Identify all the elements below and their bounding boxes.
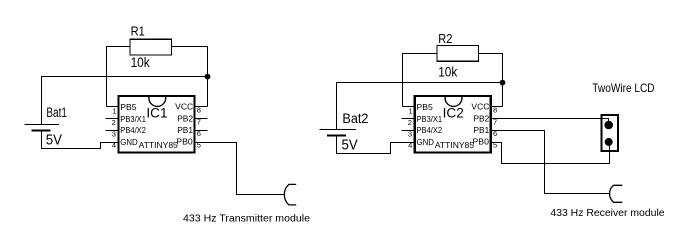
svg-text:5V: 5V (46, 131, 62, 148)
IC2 pin8 stub VCC (491, 106, 502, 108)
svg-text:IC2: IC2 (443, 106, 464, 121)
svg-text:PB5: PB5 (417, 102, 434, 112)
svg-text:IC1: IC1 (146, 106, 167, 121)
TwoWire LCD connector body (602, 115, 618, 151)
svg-text:GND: GND (417, 137, 434, 147)
svg-text:1: 1 (112, 106, 116, 115)
svg-text:1: 1 (408, 106, 412, 115)
svg-text:8: 8 (197, 106, 201, 115)
svg-text:8: 8 (493, 106, 497, 115)
IC2 notch (445, 96, 462, 106)
IC1 pin1 stub (107, 106, 119, 108)
svg-text:3: 3 (408, 130, 412, 139)
wire battery2 plus rail (337, 83, 503, 130)
svg-text:7: 7 (493, 117, 497, 126)
wire battery plus rail (42, 77, 208, 125)
IC1 pin2 stub (105, 118, 118, 120)
svg-text:PB0: PB0 (473, 136, 490, 146)
svg-text:5V: 5V (342, 137, 358, 154)
svg-text:10k: 10k (438, 63, 458, 79)
svg-text:6: 6 (197, 129, 201, 138)
TwoWire LCD pin circle bottom (605, 138, 613, 146)
resistor R2 body (437, 46, 479, 62)
svg-text:PB4/X2: PB4/X2 (417, 125, 443, 135)
svg-text:VCC: VCC (471, 102, 489, 112)
svg-text:2: 2 (408, 118, 412, 127)
wire PB0 to transmitter antenna (195, 143, 285, 195)
transmitter antenna symbol (284, 184, 296, 205)
wire battery minus to GND pin (42, 131, 119, 149)
TwoWire LCD pin circle top (604, 121, 613, 130)
IC1 pin7 stub (195, 118, 208, 120)
op IC1 body ATTINY85 (119, 96, 195, 152)
svg-text:PB2: PB2 (177, 114, 193, 124)
svg-text:TwoWire LCD: TwoWire LCD (592, 81, 655, 95)
svg-text:PB4/X2: PB4/X2 (120, 125, 146, 135)
svg-text:R2: R2 (438, 31, 452, 46)
svg-text:PB3/X1: PB3/X1 (120, 114, 146, 124)
svg-text:5: 5 (197, 140, 201, 149)
resistor R1 body (130, 39, 172, 55)
wire battery2 minus to GND pin (337, 136, 415, 154)
receiver antenna symbol (610, 185, 623, 202)
junction dot node VCC1 (205, 74, 211, 80)
svg-text:PB1: PB1 (473, 125, 489, 135)
svg-text:10k: 10k (131, 54, 151, 70)
svg-text:5: 5 (493, 140, 497, 149)
svg-text:7: 7 (197, 117, 201, 126)
svg-text:GND: GND (120, 137, 137, 147)
svg-text:433 Hz Receiver module: 433 Hz Receiver module (550, 207, 664, 219)
svg-text:PB3/X1: PB3/X1 (417, 114, 443, 124)
svg-text:433 Hz Transmitter module: 433 Hz Transmitter module (183, 212, 310, 224)
svg-text:3: 3 (112, 130, 116, 139)
battery Bat1 short plate (32, 130, 51, 132)
svg-text:PB1: PB1 (177, 125, 193, 135)
svg-text:Bat2: Bat2 (342, 110, 368, 126)
op IC2 body ATTINY85 (415, 96, 491, 152)
svg-text:4: 4 (408, 141, 412, 150)
svg-text:6: 6 (493, 129, 497, 138)
svg-text:PB2: PB2 (473, 114, 489, 124)
wire R1 left lead to pin1 (107, 47, 130, 107)
svg-text:4: 4 (112, 141, 116, 150)
wire R2 left lead to pin1 (403, 54, 437, 107)
battery Bat2 long plate (320, 129, 356, 131)
wire R1 right lead down to VCC (172, 47, 208, 107)
wire PB0 to LCD bottom pin (491, 142, 609, 164)
IC1 notch (149, 96, 166, 106)
svg-text:Bat1: Bat1 (46, 105, 67, 120)
IC2 pin3 stub (402, 130, 415, 132)
svg-text:ATTINY85: ATTINY85 (139, 140, 178, 150)
wire R2 right lead down to VCC (479, 54, 503, 107)
IC1 pin8 stub VCC (195, 106, 208, 108)
svg-text:PB5: PB5 (120, 102, 137, 112)
svg-text:R1: R1 (131, 24, 145, 39)
IC1 pin3 stub (105, 130, 118, 132)
IC2 pin1 stub (403, 106, 415, 108)
svg-text:ATTINY85: ATTINY85 (435, 140, 474, 150)
battery Bat2 short plate (327, 135, 346, 137)
svg-text:VCC: VCC (175, 102, 193, 112)
wire PB1 to receiver antenna (491, 131, 610, 194)
junction dot node VCC2 (500, 80, 506, 86)
svg-text:2: 2 (112, 118, 116, 127)
svg-text:PB0: PB0 (176, 136, 193, 146)
IC1 pin6 stub (195, 130, 208, 132)
wire PB2 to LCD top pin (491, 119, 608, 125)
battery Bat1 long plate (25, 124, 59, 126)
IC2 pin2 stub (402, 118, 415, 120)
